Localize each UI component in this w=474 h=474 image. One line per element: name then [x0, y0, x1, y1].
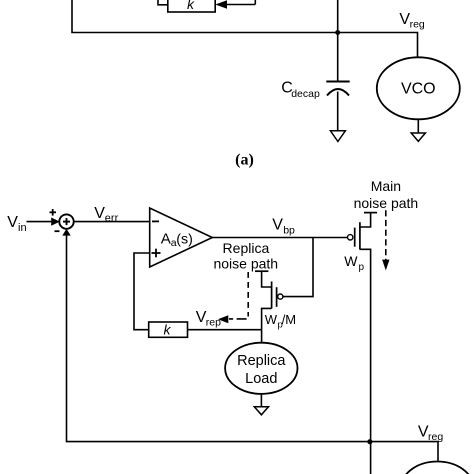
svg-text:/M: /M: [282, 312, 296, 327]
svg-text:k: k: [187, 0, 195, 12]
svg-text:reg: reg: [428, 431, 443, 443]
svg-text:err: err: [105, 213, 119, 225]
svg-text:W: W: [265, 312, 278, 327]
svg-text:W: W: [344, 253, 358, 269]
svg-text:Replica: Replica: [223, 240, 270, 256]
svg-text:Main: Main: [371, 178, 401, 194]
svg-text:(s): (s): [176, 231, 193, 247]
svg-text:(a): (a): [235, 151, 254, 168]
svg-text:V: V: [7, 214, 18, 231]
svg-text:V: V: [94, 205, 105, 222]
svg-text:decap: decap: [291, 88, 320, 100]
svg-text:bp: bp: [283, 224, 295, 236]
svg-text:noise path: noise path: [213, 255, 278, 271]
svg-text:noise path: noise path: [354, 195, 419, 211]
svg-text:Load: Load: [245, 371, 277, 387]
svg-text:k: k: [164, 322, 172, 338]
svg-text:VCO: VCO: [401, 81, 436, 98]
svg-text:A: A: [161, 230, 171, 247]
svg-text:p: p: [359, 262, 365, 273]
svg-text:rep: rep: [206, 317, 221, 329]
svg-text:Replica: Replica: [237, 353, 286, 369]
svg-text:in: in: [18, 222, 27, 234]
svg-text:reg: reg: [410, 19, 425, 31]
svg-text:V: V: [272, 216, 283, 233]
